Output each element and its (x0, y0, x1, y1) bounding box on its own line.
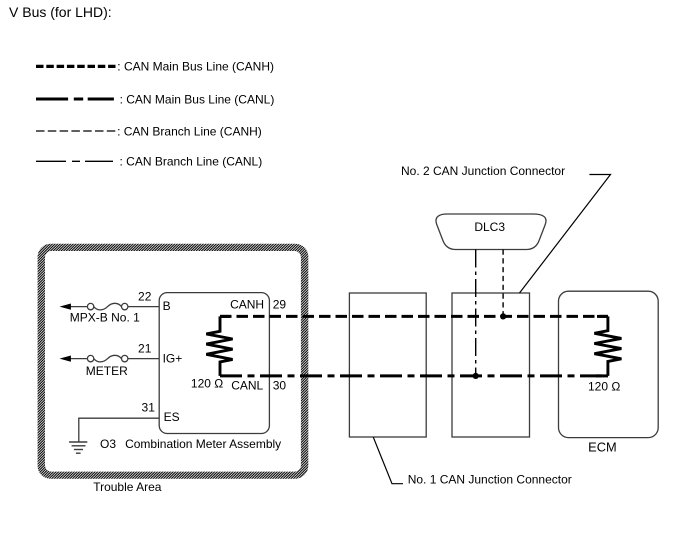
combination meter assembly box (159, 293, 269, 434)
svg-text:: CAN Branch Line (CANL): : CAN Branch Line (CANL) (120, 155, 263, 169)
resistor 120 ohm (meter) (206, 316, 232, 376)
svg-text:CANL: CANL (231, 379, 263, 393)
DLC3 connector shape (436, 214, 546, 250)
svg-text:ES: ES (164, 410, 180, 424)
svg-text:IG+: IG+ (163, 351, 183, 365)
wire pin IG+ to connector (128, 358, 159, 360)
ECM box (559, 291, 659, 437)
svg-text:30: 30 (273, 379, 287, 393)
CAN main bus line CANH (thick dashed) (220, 315, 608, 318)
ground symbol (69, 442, 87, 453)
resistor 120 ohm (ECM) (594, 316, 621, 376)
svg-text:21: 21 (138, 341, 152, 355)
CANH corner solid at ECM (597, 315, 608, 318)
leader line No. 2 (520, 175, 611, 294)
svg-text:Combination Meter Assembly: Combination Meter Assembly (125, 437, 281, 451)
svg-text:V Bus (for LHD):: V Bus (for LHD): (9, 4, 112, 20)
wire connector IG+ to arrow (70, 358, 87, 360)
No. 1 CAN junction connector box (349, 293, 426, 437)
leader line No. 1 (373, 437, 403, 484)
CAN branch line CANL from DLC3 (thin dash-dot) (475, 250, 477, 376)
svg-text:O3: O3 (100, 437, 116, 451)
CAN branch line CANH from DLC3 (thin dashed) (502, 250, 504, 317)
svg-text:31: 31 (142, 401, 156, 415)
junction node CANH dot (500, 313, 506, 319)
svg-text:29: 29 (273, 298, 287, 312)
svg-text:22: 22 (138, 289, 152, 303)
arrow METER (60, 356, 71, 362)
svg-text:METER: METER (86, 364, 128, 378)
svg-text:B: B (163, 299, 171, 313)
svg-text:: CAN Main Bus Line (CANL): : CAN Main Bus Line (CANL) (120, 92, 275, 106)
svg-text:: CAN Branch Line (CANH): : CAN Branch Line (CANH) (117, 124, 262, 138)
arrow MPX-B (60, 304, 71, 310)
wire pin ES to ground (79, 418, 159, 442)
legend line CAN Main Bus Line (CANL) (36, 98, 114, 101)
svg-text:120 Ω: 120 Ω (191, 376, 223, 390)
svg-text:120 Ω: 120 Ω (588, 380, 620, 394)
svg-text:MPX-B No. 1: MPX-B No. 1 (70, 311, 140, 325)
CANL corner solid at ECM (596, 374, 608, 377)
svg-text:: CAN Main Bus Line (CANH): : CAN Main Bus Line (CANH) (117, 60, 274, 74)
connector symbol B (circle-wave-circle) (87, 303, 128, 310)
svg-text:DLC3: DLC3 (474, 220, 505, 234)
svg-text:No. 2 CAN Junction Connector: No. 2 CAN Junction Connector (401, 164, 565, 178)
trouble area hatched border (38, 244, 309, 479)
wire pin B to connector (128, 306, 159, 308)
svg-text:No. 1 CAN Junction Connector: No. 1 CAN Junction Connector (408, 473, 572, 487)
junction node CANL dot (473, 373, 479, 379)
CANH corner solid at meter (220, 315, 230, 318)
CAN main bus line CANL (thick dash-dot) (220, 374, 608, 377)
connector symbol IG+ (circle-wave-circle) (87, 355, 128, 362)
svg-text:CANH: CANH (230, 298, 264, 312)
wire connector B to arrow (70, 306, 87, 308)
svg-text:ECM: ECM (588, 440, 616, 455)
legend line CAN Main Bus Line (CANH) (36, 65, 116, 68)
No. 2 CAN junction connector box (452, 293, 530, 437)
legend line CAN Branch Line (CANL) (36, 160, 113, 162)
svg-text:Trouble Area: Trouble Area (93, 480, 162, 494)
legend line CAN Branch Line (CANH) (36, 130, 116, 132)
